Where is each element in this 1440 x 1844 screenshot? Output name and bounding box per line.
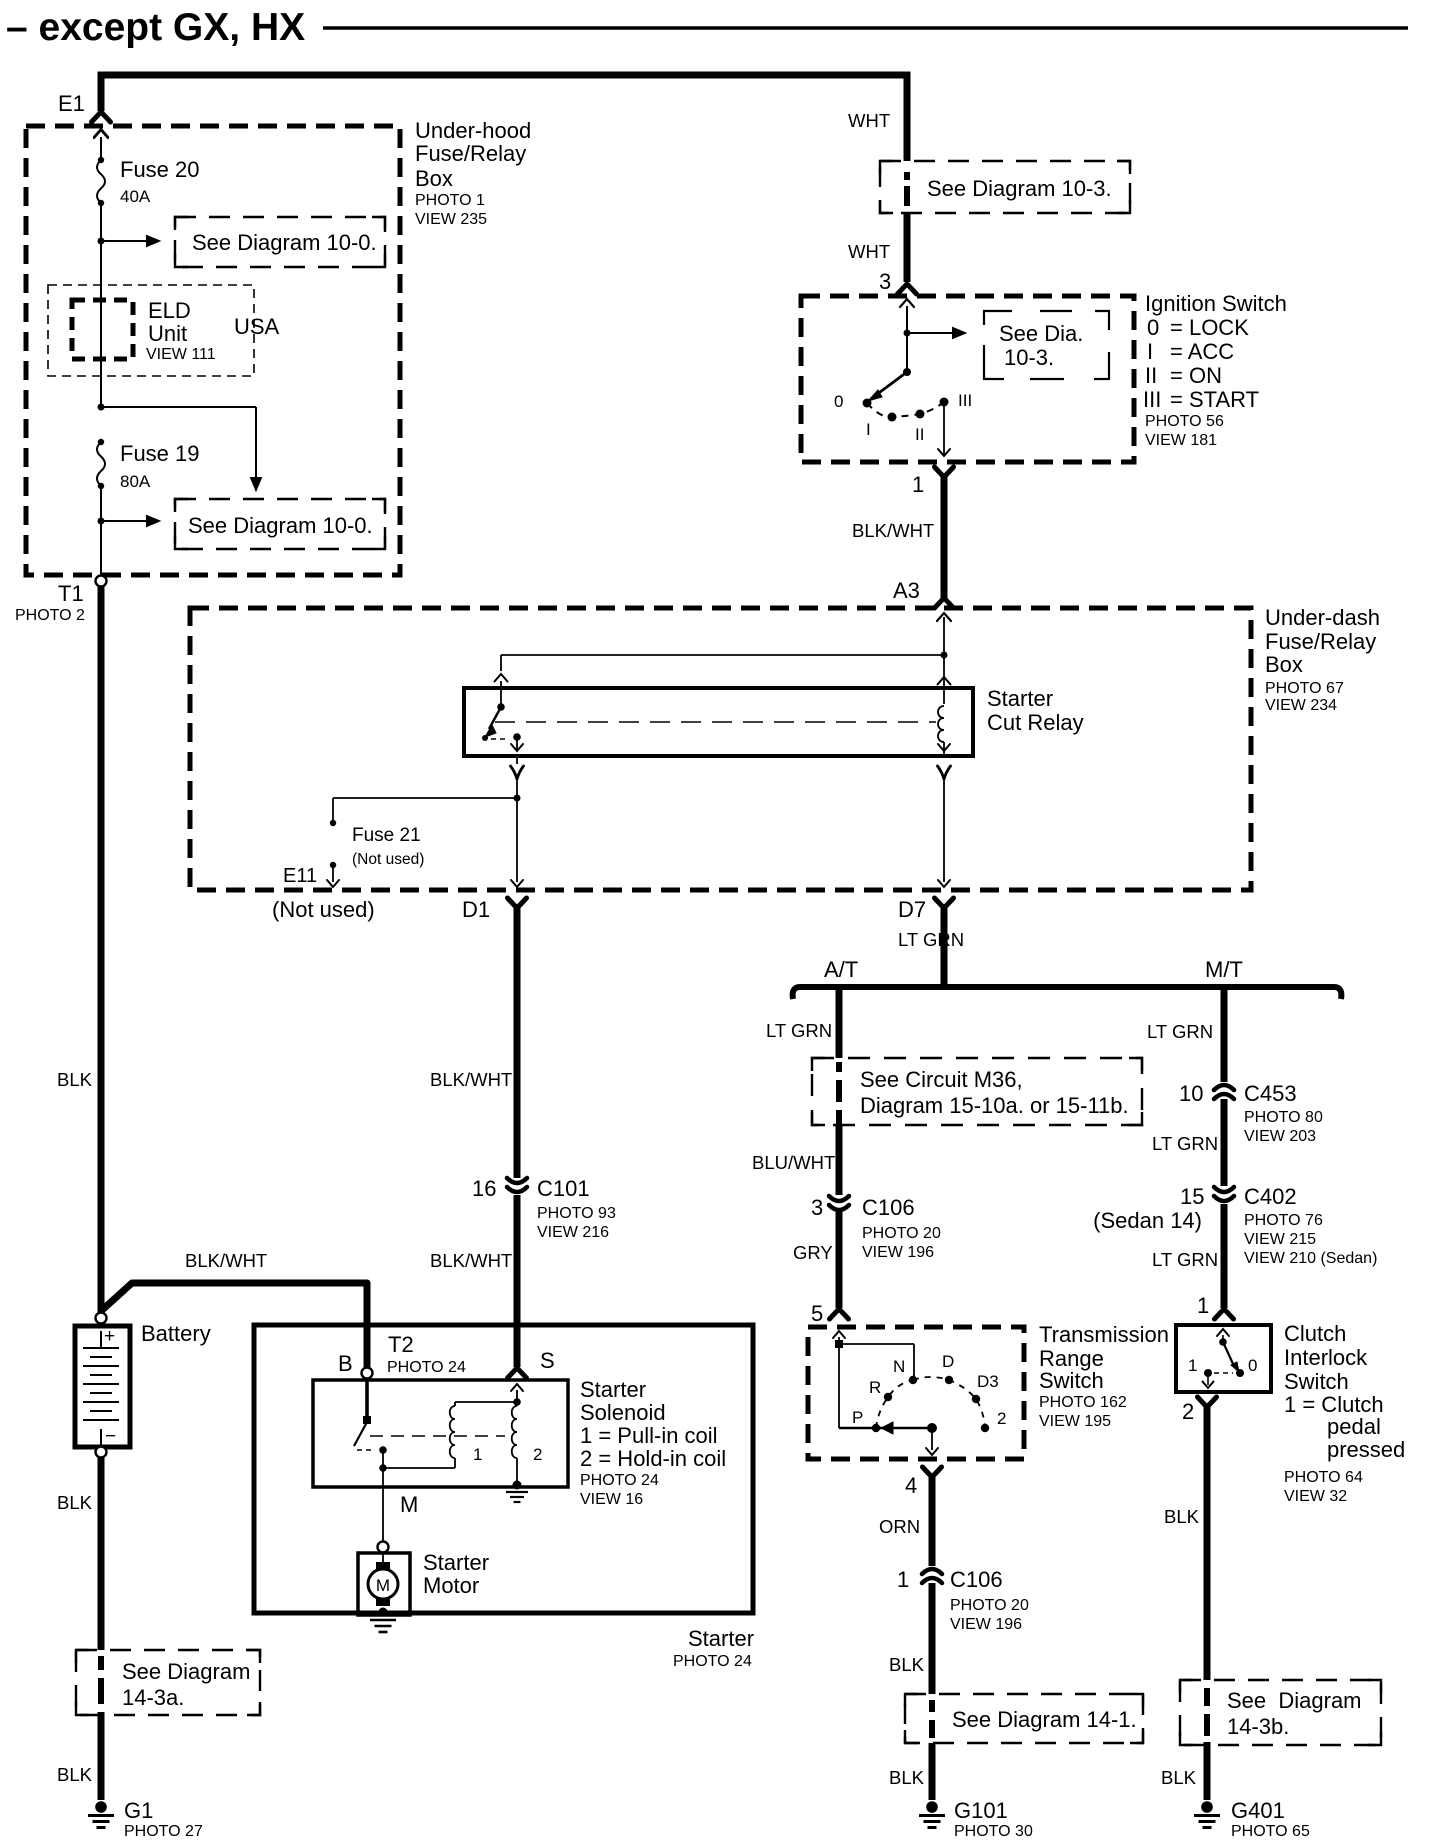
svg-text:ELD: ELD: [148, 298, 191, 323]
svg-text:See Diagram 10-3.: See Diagram 10-3.: [927, 176, 1112, 201]
wire D7 down: [943, 779, 945, 882]
wire BLK/WHT battery to solenoid B: [101, 1283, 367, 1368]
svg-text:LT GRN: LT GRN: [1147, 1021, 1213, 1042]
svg-text:See Diagram 14-1.: See Diagram 14-1.: [952, 1707, 1137, 1732]
svg-text:T2: T2: [388, 1332, 414, 1357]
svg-text:Switch: Switch: [1039, 1368, 1104, 1393]
svg-text:S: S: [540, 1348, 555, 1373]
pull-in coil 1: [450, 1406, 455, 1458]
svg-text:See Diagram 10-0.: See Diagram 10-0.: [188, 513, 373, 538]
svg-text:VIEW 16: VIEW 16: [580, 1491, 643, 1508]
svg-text:PHOTO 27: PHOTO 27: [124, 1823, 203, 1840]
solenoid coil ground: [513, 1481, 522, 1490]
wire A3 to relay: [943, 617, 945, 688]
svg-text:PHOTO 24: PHOTO 24: [387, 1359, 466, 1376]
wire M to motor: [382, 1468, 384, 1542]
wire ORN: [929, 1477, 936, 1566]
svg-text:Motor: Motor: [423, 1573, 479, 1598]
svg-text:10: 10: [1179, 1081, 1203, 1106]
svg-text:VIEW 196: VIEW 196: [950, 1616, 1022, 1633]
svg-text:PHOTO 20: PHOTO 20: [862, 1225, 941, 1242]
svg-text:Under-dash: Under-dash: [1265, 605, 1380, 630]
svg-text:GRY: GRY: [793, 1242, 833, 1263]
svg-text:PHOTO 30: PHOTO 30: [954, 1823, 1033, 1840]
wire E1 drop: [98, 72, 105, 112]
svg-text:1: 1: [1197, 1293, 1209, 1318]
svg-text:(Sedan 14): (Sedan 14): [1093, 1208, 1202, 1233]
svg-text:VIEW 196: VIEW 196: [862, 1244, 934, 1261]
svg-text:C453: C453: [1244, 1081, 1297, 1106]
A/T M/T bracket: [793, 987, 1342, 999]
svg-text:BLK: BLK: [889, 1767, 925, 1788]
Ignition Switch box: [801, 296, 1134, 462]
battery: [96, 1313, 107, 1324]
relay switch: [500, 688, 502, 707]
svg-text:E1: E1: [58, 91, 85, 116]
node junction see dia: [904, 330, 911, 337]
svg-text:15: 15: [1180, 1184, 1204, 1209]
ELD unit: [72, 300, 133, 359]
svg-text:BLK/WHT: BLK/WHT: [185, 1250, 267, 1271]
wire A/T LT GRN: [836, 987, 843, 1058]
svg-text:Solenoid: Solenoid: [580, 1400, 666, 1425]
svg-text:1: 1: [912, 472, 924, 497]
svg-text:PHOTO 65: PHOTO 65: [1231, 1823, 1310, 1840]
svg-text:VIEW 216: VIEW 216: [537, 1224, 609, 1241]
svg-text:1: 1: [1188, 1356, 1197, 1375]
svg-text:10-3.: 10-3.: [1004, 345, 1054, 370]
svg-text:VIEW 210 (Sedan): VIEW 210 (Sedan): [1244, 1250, 1377, 1267]
fuse F20: [98, 157, 104, 163]
See Diagram 10-0 box B: [175, 499, 385, 549]
svg-text:2: 2: [533, 1445, 542, 1464]
svg-text:– except GX, HX: – except GX, HX: [6, 6, 305, 49]
svg-text:PHOTO 1: PHOTO 1: [415, 192, 485, 209]
pin 4 out: [923, 1467, 942, 1477]
svg-text:pressed: pressed: [1327, 1437, 1405, 1462]
svg-text:D3: D3: [977, 1372, 999, 1391]
svg-text:BLK: BLK: [57, 1492, 93, 1513]
Starter Motor: [358, 1553, 410, 1615]
solenoid M path: [382, 1450, 384, 1468]
node junction to diagram 10-0: [98, 238, 105, 245]
See Diagram 10-3 box: [880, 161, 1130, 213]
svg-text:PHOTO 24: PHOTO 24: [580, 1472, 659, 1489]
relay coil: [938, 677, 951, 685]
svg-text:+: +: [104, 1326, 115, 1347]
svg-text:Starter: Starter: [423, 1550, 489, 1575]
svg-text:M/T: M/T: [1205, 957, 1243, 982]
node relay feed junction: [941, 652, 948, 659]
ELD USA box: [48, 285, 254, 376]
Under-hood Fuse/Relay Box: [26, 126, 400, 575]
svg-text:1: 1: [897, 1567, 909, 1592]
svg-text:D: D: [942, 1352, 954, 1371]
svg-text:Clutch: Clutch: [1284, 1321, 1346, 1346]
See Circuit M36 box: [812, 1058, 1142, 1125]
svg-text:PHOTO 80: PHOTO 80: [1244, 1109, 1323, 1126]
ground G101: [926, 1801, 938, 1813]
svg-text:WHT: WHT: [848, 241, 890, 262]
hold-in coil 2: [511, 1384, 523, 1391]
svg-text:Cut Relay: Cut Relay: [987, 710, 1084, 735]
svg-text:C402: C402: [1244, 1184, 1297, 1209]
wire T1 to battery BLK: [98, 586, 105, 1312]
svg-text:III: III: [1143, 387, 1161, 412]
TRS internals: [833, 1331, 845, 1338]
svg-text:D7: D7: [898, 897, 926, 922]
svg-text:I: I: [1147, 339, 1153, 364]
ground G401: [1201, 1801, 1213, 1813]
svg-text:BLK: BLK: [57, 1069, 93, 1090]
wire ignition feed: [900, 299, 914, 307]
svg-text:Fuse 21: Fuse 21: [352, 825, 421, 846]
ground G1: [95, 1801, 107, 1813]
Starter box: [254, 1325, 753, 1613]
svg-text:LT GRN: LT GRN: [898, 929, 964, 950]
svg-text:M: M: [400, 1492, 418, 1517]
svg-text:G101: G101: [954, 1798, 1008, 1823]
wire fuse chain: [94, 130, 108, 138]
svg-text:BLU/WHT: BLU/WHT: [752, 1152, 835, 1173]
svg-text:VIEW 181: VIEW 181: [1145, 432, 1217, 449]
wire D7 trunk: [941, 908, 948, 984]
svg-text:4: 4: [905, 1473, 917, 1498]
wire through M36 box: [836, 1062, 842, 1072]
Transmission Range Switch box: [808, 1327, 1024, 1459]
svg-text:VIEW 111: VIEW 111: [146, 346, 216, 363]
svg-text:3: 3: [811, 1195, 823, 1220]
svg-text:Transmission: Transmission: [1039, 1322, 1169, 1347]
svg-text:E11: E11: [283, 865, 317, 887]
svg-text:N: N: [893, 1357, 905, 1376]
Starter Solenoid box: [313, 1380, 568, 1487]
svg-text:Fuse 19: Fuse 19: [120, 441, 200, 466]
wire D1 down: [516, 798, 518, 882]
svg-text:2 = Hold-in coil: 2 = Hold-in coil: [580, 1446, 726, 1471]
svg-text:PHOTO 24: PHOTO 24: [673, 1653, 752, 1670]
svg-text:14-3b.: 14-3b.: [1227, 1714, 1289, 1739]
svg-text:G401: G401: [1231, 1798, 1285, 1823]
svg-text:BLK: BLK: [1161, 1767, 1197, 1788]
Starter Cut Relay box: [464, 688, 973, 756]
svg-text:A/T: A/T: [824, 957, 858, 982]
wire relay switch feed: [501, 654, 944, 656]
See Diagram 14-1 box: [905, 1694, 1143, 1743]
clutch switch internals: [1217, 1329, 1229, 1336]
svg-text:PHOTO 162: PHOTO 162: [1039, 1394, 1127, 1411]
svg-text:T1: T1: [58, 581, 84, 606]
svg-text:VIEW 234: VIEW 234: [1265, 697, 1337, 714]
svg-text:Interlock: Interlock: [1284, 1345, 1368, 1370]
svg-text:= ACC: = ACC: [1170, 339, 1234, 364]
svg-text:BLK: BLK: [1164, 1506, 1200, 1527]
svg-text:(Not used): (Not used): [352, 851, 424, 868]
solenoid switch: [365, 1379, 369, 1420]
svg-text:BLK/WHT: BLK/WHT: [430, 1250, 512, 1271]
wire main power bus: [101, 72, 907, 79]
svg-text:ORN: ORN: [879, 1516, 920, 1537]
wire arrow to See Diagram 10-0: [101, 240, 148, 242]
fuse F21 not used: [330, 820, 336, 826]
wire BLK to G401: [1204, 1407, 1211, 1680]
wire M/T LT GRN: [1221, 987, 1228, 1082]
svg-text:Fuse/Relay: Fuse/Relay: [1265, 629, 1376, 654]
svg-text:LT GRN: LT GRN: [766, 1020, 832, 1041]
svg-text:VIEW 235: VIEW 235: [415, 211, 487, 228]
svg-text:= LOCK: = LOCK: [1170, 315, 1249, 340]
svg-text:Unit: Unit: [148, 321, 187, 346]
svg-text:See Diagram: See Diagram: [122, 1659, 250, 1684]
svg-text:II: II: [1145, 363, 1157, 388]
svg-text:0: 0: [834, 392, 843, 411]
svg-text:VIEW 203: VIEW 203: [1244, 1128, 1316, 1145]
svg-text:VIEW 215: VIEW 215: [1244, 1231, 1316, 1248]
svg-text:0: 0: [1248, 1356, 1257, 1375]
svg-text:Fuse 20: Fuse 20: [120, 157, 200, 182]
solenoid linkage dashed: [370, 1435, 505, 1437]
svg-text:Starter: Starter: [580, 1377, 646, 1402]
svg-text:80A: 80A: [120, 472, 151, 491]
wire to arrow down: [101, 406, 256, 408]
See Diagram 14-3b box: [1180, 1680, 1381, 1745]
svg-text:PHOTO 67: PHOTO 67: [1265, 680, 1344, 697]
svg-text:See Diagram 10-0.: See Diagram 10-0.: [192, 230, 377, 255]
svg-text:14-3a.: 14-3a.: [122, 1685, 184, 1710]
svg-text:WHT: WHT: [848, 110, 890, 131]
svg-text:Switch: Switch: [1284, 1369, 1349, 1394]
wire to fuse21: [333, 797, 517, 799]
See Diagram 14-3a box: [76, 1650, 260, 1715]
svg-text:VIEW 32: VIEW 32: [1284, 1488, 1347, 1505]
svg-text:A3: A3: [893, 578, 920, 603]
svg-text:M: M: [376, 1576, 390, 1595]
svg-text:PHOTO 64: PHOTO 64: [1284, 1469, 1363, 1486]
svg-text:R: R: [869, 1378, 881, 1397]
svg-text:BLK: BLK: [889, 1654, 925, 1675]
node junction to diagram 10-0 b: [98, 518, 105, 525]
svg-text:Ignition Switch: Ignition Switch: [1145, 291, 1287, 316]
svg-text:Box: Box: [1265, 652, 1303, 677]
relay contact out: [516, 737, 518, 749]
Clutch Interlock Switch box: [1176, 1325, 1271, 1392]
svg-text:USA: USA: [234, 314, 280, 339]
svg-text:2: 2: [1182, 1399, 1194, 1424]
svg-text:(Not used): (Not used): [272, 897, 375, 922]
wire WHT to ignition: [904, 72, 911, 162]
svg-text:16: 16: [472, 1176, 496, 1201]
svg-text:PHOTO 76: PHOTO 76: [1244, 1212, 1323, 1229]
ignition switch contacts: [903, 368, 911, 376]
svg-text:Box: Box: [415, 166, 453, 191]
svg-text:C106: C106: [950, 1567, 1003, 1592]
svg-text:C106: C106: [862, 1195, 915, 1220]
svg-text:= ON: = ON: [1170, 363, 1222, 388]
svg-text:See Diagram: See Diagram: [1227, 1688, 1362, 1713]
svg-text:Diagram 15-10a. or 15-11b.: Diagram 15-10a. or 15-11b.: [860, 1093, 1129, 1118]
svg-text:5: 5: [811, 1301, 823, 1326]
wire ignition out: [943, 403, 945, 455]
wire C101 to S: [514, 908, 521, 1178]
svg-text:LT GRN: LT GRN: [1152, 1133, 1218, 1154]
svg-text:BLK/WHT: BLK/WHT: [852, 520, 934, 541]
svg-text:P: P: [852, 1408, 863, 1427]
svg-text:VIEW 195: VIEW 195: [1039, 1413, 1111, 1430]
svg-text:PHOTO 20: PHOTO 20: [950, 1597, 1029, 1614]
svg-text:1 = Pull-in coil: 1 = Pull-in coil: [580, 1423, 718, 1448]
svg-text:−: −: [105, 1426, 116, 1447]
node D1 junction: [514, 795, 521, 802]
svg-text:G1: G1: [124, 1798, 153, 1823]
fuse F19: [98, 439, 104, 445]
svg-text:III: III: [958, 391, 972, 410]
svg-text:PHOTO 2: PHOTO 2: [15, 607, 85, 624]
svg-text:= START: = START: [1170, 387, 1259, 412]
svg-text:D1: D1: [462, 897, 490, 922]
wire GRY: [836, 1212, 843, 1308]
TRS wiper line: [839, 1427, 932, 1430]
svg-text:Battery: Battery: [141, 1321, 211, 1346]
svg-text:BLK/WHT: BLK/WHT: [430, 1069, 512, 1090]
svg-text:See Circuit M36,: See Circuit M36,: [860, 1067, 1023, 1092]
svg-text:B: B: [338, 1351, 353, 1376]
svg-text:BLK: BLK: [57, 1764, 93, 1785]
node junction fuse19: [98, 404, 105, 411]
svg-text:I: I: [866, 420, 871, 439]
svg-text:PHOTO 93: PHOTO 93: [537, 1205, 616, 1222]
svg-text:Starter: Starter: [688, 1626, 754, 1651]
wire BLK to G101: [929, 1583, 936, 1694]
svg-text:Starter: Starter: [987, 686, 1053, 711]
node T1: [96, 576, 107, 587]
svg-text:II: II: [915, 425, 924, 444]
motor ground: [379, 1608, 388, 1617]
TRS rotary contacts: [909, 1376, 917, 1384]
See Diagram 10-0 box A: [175, 217, 385, 267]
svg-text:C101: C101: [537, 1176, 590, 1201]
relay linkage dashed: [495, 721, 936, 723]
svg-text:0: 0: [1147, 315, 1159, 340]
wire battery to G1: [98, 1457, 105, 1650]
svg-text:Fuse/Relay: Fuse/Relay: [415, 141, 526, 166]
svg-text:pedal: pedal: [1327, 1414, 1381, 1439]
svg-text:2: 2: [997, 1409, 1006, 1428]
Under-dash Fuse/Relay Box: [190, 608, 1251, 890]
svg-text:1: 1: [473, 1445, 482, 1464]
svg-text:See Dia.: See Dia.: [999, 321, 1083, 346]
svg-text:40A: 40A: [120, 187, 151, 206]
pin 2 out: [1198, 1397, 1217, 1407]
svg-text:3: 3: [879, 269, 891, 294]
svg-text:LT GRN: LT GRN: [1152, 1249, 1218, 1270]
svg-text:PHOTO 56: PHOTO 56: [1145, 413, 1224, 430]
See Dia 10-3 box: [984, 311, 1109, 379]
svg-text:Under-hood: Under-hood: [415, 118, 531, 143]
